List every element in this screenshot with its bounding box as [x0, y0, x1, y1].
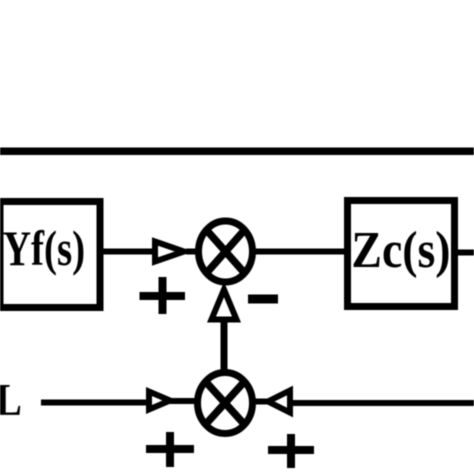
arrowhead into summing junction 2 from right (hollow, pointing left)	[252, 391, 290, 413]
summing junction 2 (circle with X)	[198, 373, 253, 434]
label: plus sign at summing junction 2 right input	[268, 434, 314, 468]
wire: right input into summing junction 2	[292, 400, 474, 406]
label: plus sign at summing junction 1 input	[140, 277, 186, 314]
arrowhead into summing junction 1 (hollow, pointing right)	[155, 242, 197, 262]
svg-text:Yf(s): Yf(s)	[3, 220, 85, 276]
block Zc(s)	[348, 201, 455, 307]
wire: L to arrowhead	[41, 400, 150, 406]
wire: summing junction 1 to Zc(s)	[252, 249, 348, 255]
block Yf(s)	[0, 202, 100, 308]
svg-text:Zc(s): Zc(s)	[351, 220, 450, 278]
arrowhead into summing junction 1 from below (hollow, pointing up)	[212, 290, 237, 320]
arrowhead into summing junction 2 from left (hollow, pointing right)	[149, 392, 198, 410]
svg-text:L: L	[0, 375, 22, 426]
summing junction 1 (circle with X)	[199, 221, 253, 282]
wire: vertical line from summing junction 2 up to arrow	[221, 318, 228, 375]
wire: Yf(s) output to summing junction 1	[101, 249, 158, 255]
wire: top horizontal bus line	[0, 147, 474, 155]
wire: Zc(s) output to right edge	[454, 250, 474, 256]
label: minus sign at summing junction 1	[248, 295, 278, 304]
label: plus sign at summing junction 2 left input	[146, 432, 194, 467]
